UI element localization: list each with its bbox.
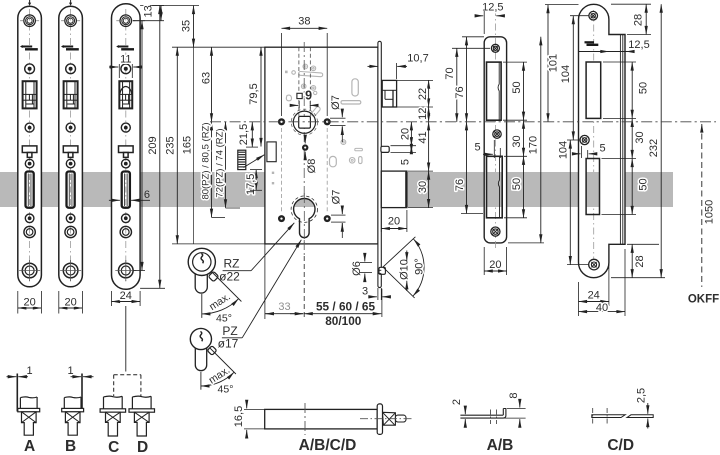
svg-text:A/B/C/D: A/B/C/D xyxy=(299,437,357,454)
svg-text:30: 30 xyxy=(634,131,646,143)
svg-text:12,5: 12,5 xyxy=(628,39,649,51)
dim 79,5 xyxy=(248,47,261,146)
svg-text:OKFF: OKFF xyxy=(688,294,719,306)
faceplate P3 (sections C/D) xyxy=(112,4,141,290)
hole Ø8 xyxy=(302,144,308,150)
svg-text:ø22: ø22 xyxy=(219,270,240,284)
svg-text:235: 235 xyxy=(165,136,177,154)
C/D dim 50 lower xyxy=(602,159,650,215)
keyhole dashed circle xyxy=(291,196,317,222)
A/B dim 76 lower xyxy=(454,122,483,214)
svg-text:A/B: A/B xyxy=(487,437,514,454)
dim 17,5 xyxy=(245,170,262,195)
dim 3 xyxy=(362,285,390,300)
svg-text:70: 70 xyxy=(444,67,456,79)
centerline over keyhole xyxy=(303,193,305,243)
C/D section profile xyxy=(592,408,653,424)
svg-text:232: 232 xyxy=(648,139,660,157)
dim 20 under P1 xyxy=(18,291,42,314)
A/B dim 12,5 xyxy=(476,1,504,34)
hole right of follower xyxy=(324,118,331,125)
svg-text:6: 6 xyxy=(144,189,150,201)
svg-text:50: 50 xyxy=(511,81,523,93)
section A latch xyxy=(17,365,39,455)
dim Ø7 lower xyxy=(330,190,345,238)
dim 2,5 C/D xyxy=(635,388,647,429)
faceplate P2 (section B) xyxy=(59,6,83,287)
svg-text:12: 12 xyxy=(417,108,429,120)
svg-text:104: 104 xyxy=(557,141,569,159)
dim 11 at P3 latch xyxy=(109,53,143,78)
A/B dim 50 lower xyxy=(504,156,527,218)
dashed lines follower square xyxy=(299,47,310,116)
leader PZ to keyhole xyxy=(242,240,301,338)
faceplate P1 (section A) xyxy=(18,6,42,287)
svg-text:D: D xyxy=(137,439,148,455)
svg-text:55 / 60 / 65: 55 / 60 / 65 xyxy=(316,300,375,314)
svg-text:80(PZ) / 80,5 (RZ): 80(PZ) / 80,5 (RZ) xyxy=(200,122,211,199)
dim 13 at P3 top xyxy=(133,5,164,20)
gray dashed hole links xyxy=(282,128,328,213)
dim 5 right xyxy=(391,146,417,165)
C/D dim 24 xyxy=(579,249,609,316)
A/B dim 70 xyxy=(444,48,490,122)
svg-text:40: 40 xyxy=(596,302,608,314)
dim 16,5 xyxy=(233,401,265,437)
keyhole gray fill xyxy=(293,196,316,238)
section mark above P1 xyxy=(28,0,31,6)
front plate strip xyxy=(378,41,381,287)
svg-text:5: 5 xyxy=(399,159,411,165)
label square 9 xyxy=(292,89,317,109)
svg-text:C/D: C/D xyxy=(607,437,634,454)
svg-text:2: 2 xyxy=(451,399,463,405)
svg-text:3: 3 xyxy=(362,285,368,297)
C/D dim 104 upper xyxy=(560,16,589,140)
PZ labels xyxy=(218,324,243,351)
svg-text:10,7: 10,7 xyxy=(407,52,428,64)
keyhole PZ outline xyxy=(294,198,315,237)
main horizontal centerline xyxy=(210,121,716,123)
dim 35 xyxy=(181,6,194,48)
svg-text:Ø7: Ø7 xyxy=(330,95,342,110)
svg-text:209: 209 xyxy=(147,136,159,154)
svg-text:33: 33 xyxy=(278,301,290,313)
dim Ø8 xyxy=(305,137,318,174)
label C/D xyxy=(607,437,634,454)
svg-text:C: C xyxy=(108,439,119,455)
A/B dim 20 bottom xyxy=(484,247,506,275)
spring pack xyxy=(238,150,246,169)
svg-text:72(PZ) / 74 (RZ): 72(PZ) / 74 (RZ) xyxy=(214,128,225,197)
door leaf gray band xyxy=(0,172,673,207)
dim 80/100 xyxy=(325,314,362,328)
svg-text:50: 50 xyxy=(511,178,523,190)
C/D dim 12,5 xyxy=(579,39,650,51)
section D latch xyxy=(129,396,155,455)
strike plate A/B xyxy=(484,9,506,250)
section C latch xyxy=(100,396,126,455)
svg-text:1: 1 xyxy=(27,365,33,377)
dim 33 xyxy=(265,244,303,319)
dim 80(PZ)/80,5(RZ) xyxy=(194,47,226,244)
svg-text:76: 76 xyxy=(454,179,466,191)
svg-text:38: 38 xyxy=(298,16,310,28)
side view body xyxy=(265,403,378,435)
svg-text:12,5: 12,5 xyxy=(482,1,503,13)
dashed faceplate box above C/D xyxy=(114,375,141,396)
RZ labels xyxy=(219,257,251,284)
svg-text:22: 22 xyxy=(417,88,429,100)
follower U1 xyxy=(293,111,315,133)
svg-text:101: 101 xyxy=(547,54,559,72)
A/B dim 50 upper xyxy=(503,62,527,120)
dim 21,5 xyxy=(238,122,258,147)
dim 209 xyxy=(133,21,159,271)
hole right of keyhole xyxy=(324,215,331,222)
dim 6 at P3 deadbolt xyxy=(109,189,150,201)
svg-text:79,5: 79,5 xyxy=(248,83,260,104)
strike plate C/D xyxy=(579,4,626,277)
svg-text:20: 20 xyxy=(23,296,35,308)
C/D dim 104 lower xyxy=(557,140,589,265)
C/D dim 232 xyxy=(648,4,661,278)
dim 72(PZ)/74(RZ) xyxy=(214,122,240,208)
dim Ø7 upper xyxy=(330,95,346,142)
A/B dim 5 xyxy=(474,140,500,158)
latch bolt xyxy=(382,80,396,107)
svg-text:50: 50 xyxy=(637,82,649,94)
svg-text:16,5: 16,5 xyxy=(233,406,245,427)
svg-text:45°: 45° xyxy=(218,383,234,395)
svg-text:165: 165 xyxy=(181,136,193,154)
svg-text:90°: 90° xyxy=(413,258,425,275)
svg-text:17,5: 17,5 xyxy=(245,174,257,195)
dim 63 xyxy=(172,47,270,122)
C/D dim 40 xyxy=(579,249,626,316)
A/B dim 76 upper xyxy=(454,37,484,122)
section mark above P2 xyxy=(69,0,72,6)
svg-text:50: 50 xyxy=(637,178,649,190)
latch swing fan xyxy=(383,237,424,298)
svg-text:24: 24 xyxy=(588,289,600,301)
side view faceplate xyxy=(377,404,382,435)
dim 55/60/65 xyxy=(304,256,382,319)
svg-text:Ø10: Ø10 xyxy=(398,259,410,280)
PZ cylinder symbol xyxy=(190,328,217,370)
dim 1050 OKFF xyxy=(688,124,719,306)
dim 12 xyxy=(417,107,429,122)
svg-text:8: 8 xyxy=(508,392,520,398)
dim Ø6 xyxy=(351,254,372,281)
svg-text:24: 24 xyxy=(120,290,132,302)
dim 10,7 xyxy=(368,52,429,79)
svg-text:Ø6: Ø6 xyxy=(351,261,363,276)
dim 22 xyxy=(397,80,433,107)
leader RZ to keyhole xyxy=(251,223,294,271)
auxiliary latch bolt xyxy=(381,146,389,152)
dim 24 under P3 xyxy=(112,290,141,306)
RZ cylinder symbol xyxy=(188,248,219,293)
svg-text:1050: 1050 xyxy=(703,200,715,224)
svg-text:5: 5 xyxy=(599,142,605,154)
roller stub xyxy=(378,267,386,274)
A/B dim 170 xyxy=(508,37,544,243)
svg-text:30: 30 xyxy=(511,135,523,147)
svg-text:28: 28 xyxy=(634,255,646,267)
svg-text:A: A xyxy=(24,438,35,455)
svg-text:ø17: ø17 xyxy=(218,337,239,351)
hole left of follower xyxy=(278,118,285,125)
dim 20 bottom right xyxy=(381,210,407,232)
label A/B/C/D xyxy=(299,437,357,454)
svg-text:Ø7: Ø7 xyxy=(330,190,342,205)
svg-text:5: 5 xyxy=(474,141,480,153)
svg-text:35: 35 xyxy=(181,20,193,32)
svg-text:80/100: 80/100 xyxy=(325,314,362,328)
leader spring to lever xyxy=(244,155,265,168)
lever box xyxy=(267,142,276,162)
A/B dim 30 xyxy=(504,120,527,156)
dim 1 at B xyxy=(71,376,94,378)
dim 38 xyxy=(282,16,328,116)
svg-text:76: 76 xyxy=(454,86,466,98)
C/D dim 30 xyxy=(602,118,646,158)
svg-text:20: 20 xyxy=(64,296,76,308)
C/D dim 28 top xyxy=(611,4,651,34)
dim 101 (C/D top to axis) xyxy=(545,5,579,122)
svg-text:20: 20 xyxy=(399,128,411,140)
dim 165 xyxy=(150,6,265,244)
svg-text:30: 30 xyxy=(417,181,429,193)
dim Ø10 xyxy=(398,251,410,292)
label 90deg xyxy=(413,258,425,275)
svg-text:41: 41 xyxy=(417,131,429,143)
svg-text:B: B xyxy=(65,438,76,455)
RZ swing arc xyxy=(202,272,242,325)
svg-text:28: 28 xyxy=(633,14,645,26)
dim 30 right xyxy=(408,171,433,208)
A/B section profile xyxy=(460,409,506,425)
dim 20 right xyxy=(391,122,417,146)
PZ swing arc xyxy=(201,348,236,396)
case vertical centerline xyxy=(303,42,305,256)
svg-text:RZ: RZ xyxy=(224,257,240,271)
svg-text:45°: 45° xyxy=(216,312,232,324)
dim 2 A/B xyxy=(451,399,465,426)
svg-text:104: 104 xyxy=(560,65,572,83)
svg-text:1: 1 xyxy=(68,365,74,377)
svg-text:20: 20 xyxy=(388,215,400,227)
svg-text:20: 20 xyxy=(489,259,501,271)
dim 1 at A xyxy=(7,376,29,378)
hole left of keyhole xyxy=(278,215,285,222)
svg-text:13: 13 xyxy=(143,5,155,17)
svg-text:Ø8: Ø8 xyxy=(306,159,318,174)
gray internal parts xyxy=(272,64,363,184)
lock case body xyxy=(265,47,378,244)
section B latch xyxy=(62,365,84,455)
dim 20 under P2 xyxy=(59,291,83,314)
follower dashed circle xyxy=(291,109,317,135)
svg-text:170: 170 xyxy=(528,136,540,154)
dim 41 xyxy=(417,122,429,171)
dim 235 xyxy=(140,6,177,289)
svg-text:9: 9 xyxy=(305,89,312,103)
svg-text:2,5: 2,5 xyxy=(635,388,647,403)
C/D dim 5 xyxy=(572,142,606,158)
dim 8 A/B xyxy=(502,392,526,426)
deadbolt xyxy=(381,171,407,208)
centerline P3 to C/D sections xyxy=(125,306,127,372)
C/D dim 28 bottom xyxy=(611,244,665,277)
svg-text:11: 11 xyxy=(120,53,131,65)
C/D dim 50 upper xyxy=(603,62,649,118)
svg-text:21,5: 21,5 xyxy=(238,124,250,145)
side view latch xyxy=(360,412,414,425)
svg-text:63: 63 xyxy=(200,72,212,84)
label A/B xyxy=(487,437,514,454)
